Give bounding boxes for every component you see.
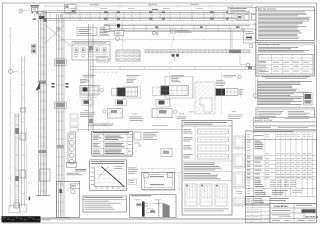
svg-text:A - B: A - B: [179, 113, 184, 116]
svg-text:GA-019-BT-12: GA-019-BT-12: [305, 216, 319, 219]
svg-text:A - A: A - A: [132, 113, 137, 116]
svg-text:SCHAU METALL: SCHAU METALL: [274, 205, 290, 208]
svg-text:Artikel-Nr. 40 44 444: Artikel-Nr. 40 44 444: [255, 119, 272, 122]
svg-text:Allg. Typ TK technik: Allg. Typ TK technik: [258, 8, 277, 11]
svg-text:Vormontage ausgesetzt: Vormontage ausgesetzt: [258, 43, 280, 46]
